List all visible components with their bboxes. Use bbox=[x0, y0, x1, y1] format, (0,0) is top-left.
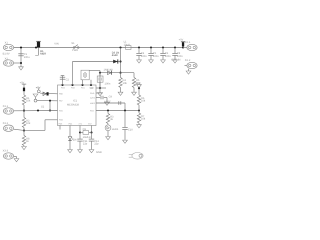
svg-text:AREF: AREF bbox=[90, 102, 96, 105]
svg-text:D4: D4 bbox=[73, 139, 77, 142]
svg-text:PC0: PC0 bbox=[90, 109, 94, 112]
svg-text:PD2: PD2 bbox=[90, 87, 94, 90]
svg-text:PD0: PD0 bbox=[71, 87, 75, 90]
svg-text:PWR: PWR bbox=[72, 49, 78, 52]
svg-text:IC1: IC1 bbox=[73, 100, 78, 103]
svg-text:PD1: PD1 bbox=[81, 87, 85, 90]
svg-text:X2-2: X2-2 bbox=[185, 59, 191, 62]
svg-text:100n: 100n bbox=[177, 55, 183, 58]
svg-text:10k: 10k bbox=[123, 82, 128, 85]
svg-text:S1: S1 bbox=[71, 42, 75, 45]
svg-text:22p: 22p bbox=[94, 143, 99, 146]
svg-text:VCC: VCC bbox=[135, 82, 141, 85]
svg-text:4148: 4148 bbox=[112, 54, 118, 57]
svg-text:10k: 10k bbox=[141, 100, 146, 103]
svg-text:PC6: PC6 bbox=[61, 87, 65, 90]
svg-text:X3-3: X3-3 bbox=[3, 150, 9, 153]
svg-text:GND: GND bbox=[96, 151, 102, 154]
svg-text:PD5: PD5 bbox=[59, 109, 63, 112]
svg-text:B1 9V: B1 9V bbox=[3, 53, 10, 56]
svg-text:100n: 100n bbox=[141, 55, 147, 58]
svg-text:+5V: +5V bbox=[179, 38, 184, 41]
svg-text:LED1: LED1 bbox=[112, 128, 119, 131]
svg-text:S2: S2 bbox=[41, 106, 45, 109]
svg-text:X3-2: X3-2 bbox=[3, 122, 9, 125]
svg-text:AVCC: AVCC bbox=[90, 96, 96, 99]
svg-text:C2: C2 bbox=[66, 79, 70, 82]
svg-text:PD4: PD4 bbox=[69, 122, 73, 125]
svg-text:1N4148: 1N4148 bbox=[104, 69, 114, 72]
svg-text:10k: 10k bbox=[26, 100, 31, 103]
svg-text:MEGA328: MEGA328 bbox=[67, 104, 80, 107]
svg-text:100n: 100n bbox=[105, 82, 111, 85]
svg-text:16MHz: 16MHz bbox=[83, 136, 92, 139]
svg-text:100n: 100n bbox=[153, 55, 159, 58]
svg-text:10k: 10k bbox=[26, 122, 31, 125]
svg-text:VIN: VIN bbox=[54, 43, 58, 46]
svg-text:XT2: XT2 bbox=[88, 122, 91, 125]
svg-text:AREF: AREF bbox=[104, 100, 111, 103]
svg-text:100u: 100u bbox=[24, 56, 30, 59]
svg-text:10uH: 10uH bbox=[124, 43, 130, 46]
svg-text:X1: X1 bbox=[5, 41, 9, 44]
svg-text:PD3: PD3 bbox=[59, 122, 63, 125]
svg-text:PB6: PB6 bbox=[59, 93, 63, 96]
svg-text:X3-1: X3-1 bbox=[3, 105, 9, 108]
svg-text:X2-1: X2-1 bbox=[185, 41, 191, 44]
svg-text:MBR: MBR bbox=[40, 53, 46, 56]
svg-text:PD6: PD6 bbox=[59, 119, 63, 122]
svg-text:ICSP IN: ICSP IN bbox=[171, 59, 180, 62]
svg-text:C10: C10 bbox=[128, 129, 133, 132]
svg-text:22p: 22p bbox=[83, 143, 88, 146]
svg-text:10k: 10k bbox=[141, 118, 146, 121]
svg-text:Q1: Q1 bbox=[83, 128, 87, 131]
svg-text:XT1: XT1 bbox=[79, 122, 82, 125]
svg-text:GND: GND bbox=[90, 92, 95, 95]
svg-text:100n: 100n bbox=[165, 55, 171, 58]
svg-text:C9: C9 bbox=[109, 95, 113, 98]
svg-text:PB7: PB7 bbox=[59, 100, 63, 103]
